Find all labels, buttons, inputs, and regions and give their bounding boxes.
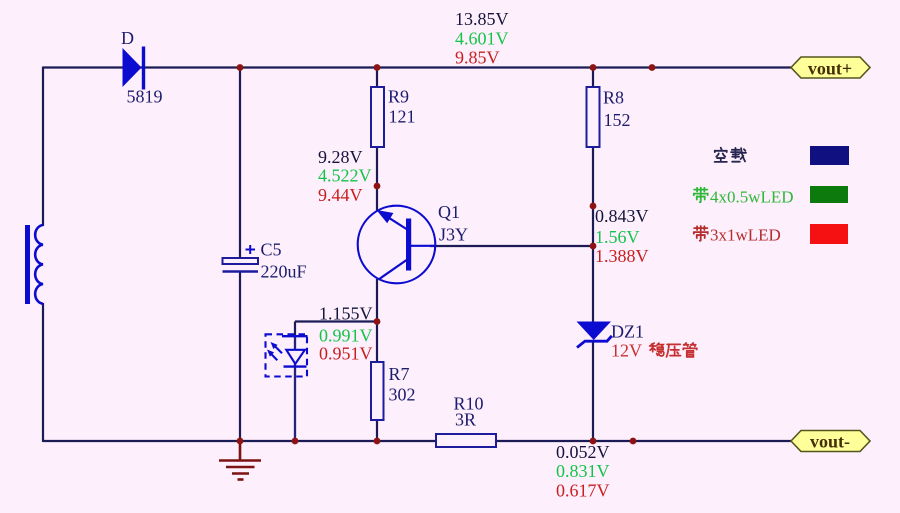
wire top rail xyxy=(43,66,791,68)
svg-text:1.388V: 1.388V xyxy=(595,246,649,266)
svg-text:vout+: vout+ xyxy=(808,59,852,79)
port vout+ xyxy=(791,57,870,79)
svg-text:C5: C5 xyxy=(261,240,282,260)
wire left vertical upper xyxy=(42,67,44,227)
junction dot bottom R7 xyxy=(374,438,381,445)
wire R8 branch from top rail xyxy=(592,67,594,89)
resistor R7 body xyxy=(371,362,384,420)
wire Q1 collector to R8/DZ1 node xyxy=(430,245,593,247)
legend swatch no-load (navy) xyxy=(810,146,849,165)
wire left vertical lower xyxy=(42,303,44,442)
transistor Q1 emitter line with arrow xyxy=(377,210,409,230)
wire bottom rail xyxy=(43,440,791,442)
wire photodiode vertical lead down to bottom rail xyxy=(294,335,296,441)
photodiode arrows xyxy=(267,342,282,360)
svg-text:152: 152 xyxy=(604,110,631,130)
junction dot bottom opto xyxy=(292,438,299,445)
junction dot top R8 xyxy=(590,64,597,71)
legend text no-load (kong zai) xyxy=(715,148,746,162)
transistor Q1 base bar xyxy=(406,219,411,271)
svg-text:0.052V: 0.052V xyxy=(556,442,610,462)
resistor R10 body xyxy=(436,434,496,447)
junction dot top R9 xyxy=(374,64,381,71)
svg-text:4x0.5wLED: 4x0.5wLED xyxy=(710,188,794,207)
inductor L core bar xyxy=(25,225,30,304)
junction dot R9 bottom node xyxy=(374,183,381,190)
svg-text:9.85V: 9.85V xyxy=(455,48,500,68)
capacitor C5 bottom plate xyxy=(223,270,259,273)
svg-text:1.155V: 1.155V xyxy=(319,304,373,324)
svg-text:DZ1: DZ1 xyxy=(611,322,644,342)
wire R8 bottom to DZ1 xyxy=(592,147,594,323)
junction dot collector node xyxy=(590,243,597,250)
svg-text:302: 302 xyxy=(389,385,416,405)
transistor Q1 collector line xyxy=(410,245,435,247)
wire C5 branch lower xyxy=(239,272,241,441)
svg-text:220uF: 220uF xyxy=(261,262,307,282)
port vout- xyxy=(791,431,870,452)
svg-text:9.44V: 9.44V xyxy=(318,185,363,205)
junction dot bottom C5 xyxy=(237,438,244,445)
wire opto branch top lead xyxy=(294,322,296,336)
wire R9 to Q1 base node xyxy=(376,145,378,211)
svg-text:J3Y: J3Y xyxy=(439,225,468,245)
svg-text:R9: R9 xyxy=(388,87,409,107)
diode D body xyxy=(123,47,144,90)
wire opto branch horizontal xyxy=(295,320,377,322)
transistor Q1 lower diagonal line xyxy=(379,259,409,280)
junction dot R8 bottom node xyxy=(590,203,597,210)
legend swatch 3x1wLED (red) xyxy=(810,224,848,244)
svg-text:0.617V: 0.617V xyxy=(556,481,610,501)
legend swatch 4x0.5wLED (green) xyxy=(810,186,848,203)
ground symbol xyxy=(219,441,261,480)
svg-text:R7: R7 xyxy=(389,364,410,384)
photodiode dashed box xyxy=(266,334,308,376)
svg-text:Q1: Q1 xyxy=(438,202,460,222)
legend text 3x1wLED (red) xyxy=(694,226,781,245)
junction dot top C5 xyxy=(237,64,244,71)
junction dot top rail right xyxy=(649,64,656,71)
svg-text:D: D xyxy=(121,28,134,48)
svg-text:R8: R8 xyxy=(603,88,624,108)
wire DZ1 cathode to bottom rail xyxy=(592,340,594,441)
svg-text:0.843V: 0.843V xyxy=(595,206,649,226)
junction dot bottom rail right xyxy=(630,438,637,445)
wire Q1 emitter down to R7 xyxy=(376,279,378,364)
photodiode top bar xyxy=(282,335,308,337)
svg-text:1.56V: 1.56V xyxy=(595,227,640,247)
svg-text:3R: 3R xyxy=(455,410,476,430)
svg-text:3x1wLED: 3x1wLED xyxy=(710,226,781,245)
junction dot bottom DZ1 xyxy=(590,438,597,445)
capacitor C5 top plate xyxy=(223,258,259,264)
svg-text:4.601V: 4.601V xyxy=(455,29,509,49)
photodiode bottom bar xyxy=(284,365,307,367)
zener DZ1 note 12V regulator (red) xyxy=(611,341,697,361)
svg-text:vout-: vout- xyxy=(810,432,850,452)
svg-text:0.831V: 0.831V xyxy=(556,461,610,481)
svg-text:12V: 12V xyxy=(611,341,642,361)
zener diode DZ1 body xyxy=(577,322,612,348)
resistor R9 body xyxy=(371,87,384,147)
wire R7 bottom to bottom rail xyxy=(376,418,378,441)
svg-text:0.951V: 0.951V xyxy=(319,344,373,364)
inductor L winding xyxy=(35,225,43,304)
svg-text:121: 121 xyxy=(389,107,416,127)
photodiode triangle xyxy=(286,350,305,364)
svg-text:0.991V: 0.991V xyxy=(319,326,373,346)
svg-text:13.85V: 13.85V xyxy=(455,9,509,29)
resistor R8 body xyxy=(587,87,600,147)
legend text 4x0.5wLED (green) xyxy=(694,187,794,206)
capacitor C5 plus sign xyxy=(246,245,256,254)
svg-text:5819: 5819 xyxy=(127,87,163,107)
wire R9 branch from top rail xyxy=(376,67,378,89)
junction dot opto branch node xyxy=(374,318,381,325)
svg-text:4.522V: 4.522V xyxy=(318,166,372,186)
transistor Q1 body circle xyxy=(358,206,436,284)
wire C5 branch upper xyxy=(239,67,241,258)
svg-text:9.28V: 9.28V xyxy=(318,147,363,167)
